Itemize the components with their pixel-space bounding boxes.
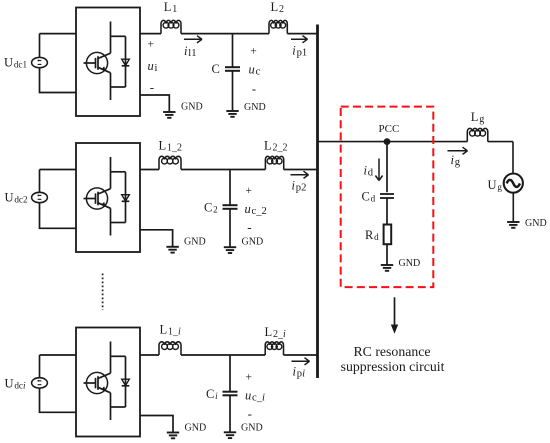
ground (inverter) [163,111,175,113]
svg-text:GND: GND [241,422,263,433]
svg-text:ip1: ip1 [292,44,307,59]
svg-text:Udc2: Udc2 [5,191,29,205]
svg-text:suppression circuit: suppression circuit [341,359,445,374]
inductor L1_2 [159,156,181,169]
svg-text:uc: uc [249,62,261,77]
wire L1 to capacitor node [181,33,233,35]
svg-text:ui: ui [148,59,158,74]
inductor L2_i [265,342,283,355]
svg-text:+: + [246,185,253,197]
svg-text:ipi: ipi [293,365,306,380]
bus (common coupling bar) [316,25,319,379]
RC suppression dashed box [341,107,434,288]
capacitor Ci [229,355,231,392]
transistor (IGBT) [110,22,112,37]
inductor L1_i [159,342,181,355]
transistor (IGBT) [110,157,112,172]
wire dc- bottom [40,388,77,412]
svg-text:C2: C2 [204,201,218,215]
svg-text:-: - [252,81,256,96]
node PCC (junction dot) [384,138,391,145]
svg-text:L2_i: L2_i [265,325,286,340]
svg-text:Lg: Lg [471,110,484,125]
dc source Udc1 [32,57,48,67]
svg-text:L1: L1 [164,0,177,15]
ground (capacitor) [224,246,236,248]
wire bus to PCC to Lg [318,141,467,143]
svg-text:Cd: Cd [362,190,376,204]
current arrow id [378,159,380,181]
wire dc+ top [39,170,41,193]
svg-text:GND: GND [181,102,203,113]
ac source Ug [504,174,523,193]
dc source Udci [32,378,48,388]
svg-text:ip2: ip2 [292,179,307,194]
wire inverter negative to ground [140,95,169,112]
dc source Udc2 [32,192,48,202]
ground (inverter) [166,246,178,248]
svg-text:+: + [250,45,256,57]
capacitor C [232,34,234,67]
svg-text:C: C [212,62,220,76]
svg-text:Udc1: Udc1 [4,56,28,70]
svg-text:ig: ig [451,153,461,168]
wire L2 to bus [287,33,318,35]
svg-text:L1_2: L1_2 [159,139,182,154]
inductor L1 [161,20,181,33]
svg-text:uc_2: uc_2 [245,202,267,217]
wire Cd to Rd [386,198,388,225]
inverter block 2 [76,143,140,252]
wire inverter output [140,33,161,35]
capacitor C2 [229,170,231,206]
current arrow ipi [292,360,310,362]
svg-text:GND: GND [185,422,207,433]
current arrow ig [448,150,468,152]
ground (capacitor) [226,110,238,112]
svg-text:uc_i: uc_i [245,388,265,403]
svg-text:GND: GND [525,218,547,229]
inverter block 1 [76,8,140,117]
diode (freewheeling) [111,35,126,37]
svg-text:GND: GND [244,102,266,113]
wire dc- bottom [40,203,77,229]
current arrow ip1 [291,38,308,40]
inductor Lg [467,128,488,141]
wire dc+ top [39,34,41,58]
wire inverter output [140,169,159,171]
wire dc- bottom [40,68,77,93]
svg-text:GND: GND [399,258,421,269]
wire L1 to capacitor node [181,354,230,356]
wire L1 to capacitor node [181,169,230,171]
wire L2 to bus [284,354,319,356]
svg-text:+: + [246,372,253,384]
svg-text:-: - [248,406,252,421]
resistor Rd [384,225,392,245]
wire inverter output [140,354,159,356]
svg-text:-: - [150,79,154,94]
svg-text:il1: il1 [184,44,197,59]
ground (inverter) [167,432,179,434]
svg-text:Ug: Ug [488,178,503,192]
diode (freewheeling) [111,355,126,357]
wire PCC to Cd [386,142,388,193]
svg-text:L2_2: L2_2 [264,139,287,154]
svg-text:GND: GND [242,237,264,248]
diode (freewheeling) [111,171,126,173]
wire node to L2 [230,169,265,171]
wire Rd to ground [386,244,388,265]
svg-text:+: + [148,39,155,51]
svg-text:RC resonance: RC resonance [353,344,430,359]
wire Lg to Ug [488,141,513,143]
wire Ug to ground [512,193,514,222]
wire L2 to bus [284,169,318,171]
inductor L2 [269,20,287,33]
svg-text:Rd: Rd [365,228,379,242]
current arrow ip2 [291,174,309,176]
svg-text:GND: GND [184,236,206,247]
annotation arrow to caption [394,297,396,325]
svg-text:id: id [364,164,374,179]
transistor (IGBT) [110,342,112,357]
wire node to L2 [233,33,270,35]
current arrow il1 [184,38,202,40]
inverter block 3 [76,328,140,437]
svg-text:Udci: Udci [5,377,27,391]
wire dc+ top [39,355,41,378]
ground (RC branch) [381,264,393,266]
wire node to L2 [230,354,265,356]
ellipsis: more inverter strings [102,274,104,311]
svg-text:L1_i: L1_i [160,323,181,338]
inductor L2_2 [265,156,283,169]
ground (capacitor) [224,431,236,433]
wire inverter negative to ground [140,230,173,247]
svg-text:L2: L2 [271,0,284,15]
svg-text:PCC: PCC [379,123,400,135]
wire inverter negative to ground [140,416,173,433]
svg-text:Ci: Ci [206,387,218,401]
capacitor Cd [380,193,394,195]
svg-text:-: - [247,220,251,235]
ground (grid source) [507,221,519,223]
